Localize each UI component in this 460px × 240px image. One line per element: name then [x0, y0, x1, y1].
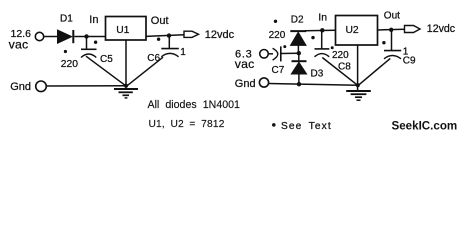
- svg-text:U1, U2 = 7812: U1, U2 = 7812: [149, 119, 225, 130]
- svg-text:C9: C9: [403, 55, 416, 66]
- svg-text:In: In: [89, 14, 98, 26]
- svg-text:Gnd: Gnd: [235, 78, 256, 90]
- svg-text:U2: U2: [346, 25, 359, 36]
- svg-text:Out: Out: [151, 15, 169, 27]
- svg-text:C5: C5: [100, 54, 113, 65]
- svg-text:D1: D1: [60, 13, 73, 24]
- svg-text:SeekIC.com: SeekIC.com: [392, 120, 458, 133]
- svg-text:In: In: [318, 11, 327, 23]
- svg-text:D2: D2: [291, 14, 304, 25]
- svg-text:vac: vac: [235, 57, 255, 71]
- svg-text:D3: D3: [311, 68, 324, 79]
- svg-text:Gnd: Gnd: [10, 81, 31, 93]
- svg-text:1: 1: [180, 47, 186, 58]
- svg-text:220: 220: [332, 50, 349, 61]
- svg-text:U1: U1: [116, 25, 129, 36]
- svg-text:C6: C6: [147, 53, 160, 64]
- svg-text:220: 220: [269, 30, 286, 41]
- svg-text:12vdc: 12vdc: [427, 23, 456, 35]
- svg-text:vac: vac: [9, 38, 29, 52]
- svg-text:220: 220: [61, 59, 78, 70]
- svg-text:C8: C8: [338, 62, 351, 73]
- svg-text:All diodes 1N4001: All diodes 1N4001: [148, 99, 240, 111]
- svg-text:Out: Out: [384, 11, 400, 22]
- svg-text:12vdc: 12vdc: [205, 29, 235, 41]
- svg-text:See Text: See Text: [281, 121, 332, 132]
- svg-text:C7: C7: [272, 65, 285, 76]
